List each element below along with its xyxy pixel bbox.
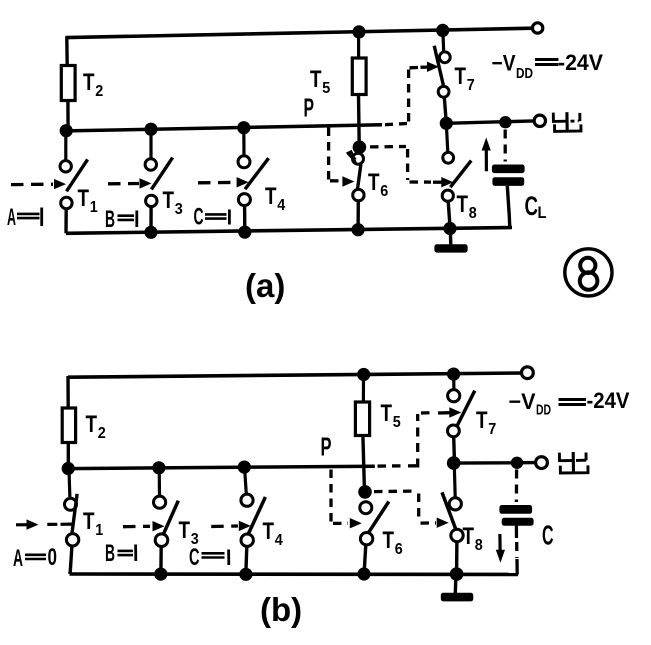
wire: dashed run to T7 gate (figure b) [421,411,433,415]
node: P bus at T4 (figure b) [238,461,251,474]
wire: dashed output to C top plate (figure b) [515,470,518,503]
label -VDD = -24V (figure b) [509,388,630,419]
wire: dashed run to T6 gate (figure b) [333,522,348,525]
svg-text:T: T [383,527,395,554]
node: top bus at T5 (figure a) [352,25,365,38]
gate dashed run from T5/T6 node (figure a) [370,145,406,149]
node: ground bus at T3 (figure a) [144,226,157,239]
node: ground bus at T4 (figure a) [238,226,251,239]
svg-text:T: T [78,185,90,212]
caption (a) [245,267,285,304]
gate arrow into T1 (figure a) [54,179,66,189]
svg-text:C: C [194,204,204,231]
label input B=1 (figure a) [105,206,137,233]
svg-text:DD: DD [516,65,533,82]
svg-text:T: T [463,523,475,550]
svg-text:T: T [476,407,488,434]
switch T7 bottom contact (figure a) [438,86,449,97]
node: P bus at T3 (figure a) [144,123,157,136]
label T2 (figure a) [83,69,103,100]
wire: figure (b) bottom ground bus [70,572,519,576]
svg-text:T: T [455,63,467,90]
svg-text:T: T [163,187,175,214]
terminal: -VDD supply (figure b) [522,367,534,379]
label input C=1 (figure b) [189,544,229,571]
wire: P bus dashed extension (figure b) [378,464,407,468]
waveform symbol at output (figure a) [553,112,581,131]
wire: T6 bottom to ground bus (figure b) [364,545,366,572]
svg-text:1: 1 [95,522,103,539]
gate arrow into T8 (figure b) [437,518,449,528]
wire: stub bus to T3 top contact (figure a) [149,131,152,159]
node: output at capacitor (figure b) [511,457,523,469]
label T2 (figure b) [86,411,106,442]
gate drive A line with arrow (figure b) [16,519,72,529]
wire: T1 bottom to ground bus (figure a) [64,209,68,234]
wire: T5 bottom through P bus to T6 node (figure a) [357,95,361,146]
wire: T7 to output node (figure b) [452,437,456,460]
wire: figure (a) left vertical from top bus to T2 [65,36,69,67]
gate drive A dashed line (figure a) [11,183,53,187]
gate drive B dashed line (figure a) [108,182,139,186]
wire: figure (a) bottom ground bus [66,228,512,234]
switch T7 blade closed (figure a) [434,46,444,87]
switch T8 bottom contact (figure a) [442,190,453,201]
label T4 (figure b) [263,518,283,549]
svg-text:3: 3 [175,201,183,218]
gate arrow into T8 (figure a) [433,177,453,187]
switch T7 top contact (figure b) [448,390,460,402]
label T3 (figure a) [163,187,183,218]
node: P bus at T1 (figure b) [62,462,75,475]
svg-text:-24V: -24V [587,388,630,413]
svg-text:DD: DD [536,402,551,419]
ground symbol at T8 (figure b) [441,575,474,601]
switch T3 bottom contact (figure a) [146,195,157,206]
wire: dashed gate riser P to T7 (figure a) [407,69,410,122]
gate drive C dashed line (figure b) [211,524,238,528]
wire: dashed gate drop P to T6 (figure a) [327,128,330,180]
wire: dashed gate riser P to T7 (figure b) [408,414,418,468]
wire: output line to terminal (figure a) [446,121,534,123]
svg-text:0: 0 [48,544,58,571]
wire: dashed gate riser to T8 (figure a) [406,149,409,180]
svg-text:T: T [179,517,191,544]
svg-text:6: 6 [380,183,388,200]
svg-text:5: 5 [393,414,401,431]
label -VDD = -24V (figure a) [492,50,604,82]
svg-text:T: T [263,518,275,545]
label CL (figure a) [525,191,547,222]
wire: T6 bottom to ground bus (figure a) [356,201,360,230]
wire: T4 bottom to ground bus (figure a) [243,206,247,233]
svg-text:C: C [189,544,200,571]
resistor T5 (load device, figure a) [352,58,366,95]
switch T4 bottom contact (figure b) [241,534,253,546]
switch T3 blade open (figure b) [162,501,179,538]
svg-text:5: 5 [322,80,330,97]
svg-text:8: 8 [469,205,477,222]
gate arrow into T3 (figure b) [153,521,165,531]
svg-text:(a): (a) [245,267,285,304]
label T1 (figure a) [78,185,98,216]
node: top bus at T7 (figure a) [436,24,449,37]
node: ground bus at T3 (figure b) [154,568,167,581]
resistor T2 (load device, figure a) [61,66,75,101]
node: T5/T6 junction (figure b) [358,485,372,499]
svg-text:−V: −V [509,389,536,414]
label C (figure b) [542,520,554,551]
gate arrow into T6 (figure a) [342,176,354,186]
gate arrow into T4 (figure a) [237,177,249,187]
wire: figure (b) P-node bus [68,466,375,468]
wire: figure (b) left vertical from top bus to T2 [66,376,70,409]
node: ground bus at T6 (figure b) [357,567,370,580]
wire: stub bus to T1 top contact (figure a) [64,132,67,161]
gate arrow into T7 (figure b) [438,407,461,417]
svg-text:4: 4 [275,532,283,549]
switch T8 bottom contact (figure b) [451,529,463,541]
wire: dashed gate drop P to T6 (figure b) [329,470,332,522]
wire: top bus to T5 resistor (figure b) [362,376,365,403]
terminal: -VDD supply (figure a) [532,23,542,33]
switch T1 blade closed (figure b) [72,494,77,534]
wire: T1 bottom to ground bus (figure b) [70,546,72,574]
svg-text:A: A [13,545,23,572]
svg-text:T: T [265,183,277,210]
svg-text:B: B [105,540,115,567]
wire: figure (a) P-node bus [66,125,382,131]
wire: stub bus to T1 top contact (figure b) [67,470,71,498]
svg-text:B: B [105,206,115,233]
label input A=1 (figure a) [7,204,42,231]
node: ground bus at T4 (figure b) [239,568,252,581]
switch T1 top contact (figure b) [65,498,77,510]
switch T7 top contact (figure a) [439,52,450,63]
wire: dashed run to T8 gate (figure a) [410,180,432,183]
svg-text:T: T [368,169,380,196]
wire: stub bus to T3 top contact (figure b) [158,469,162,496]
label T4 (figure a) [265,183,285,214]
resistor T5 (load device, figure b) [355,402,369,436]
svg-text:A: A [7,204,16,231]
svg-text:−V: −V [492,51,516,76]
svg-text:T: T [83,69,95,96]
switch T1 bottom contact (figure a) [61,197,72,208]
ground symbol at T8 (figure a) [434,229,467,253]
wire: dashed run to T6 gate (figure a) [330,179,343,182]
wire: T8 bottom to ground bus (figure a) [448,201,450,224]
svg-text:7: 7 [467,77,475,94]
wire: T3 bottom to ground bus (figure a) [149,207,153,233]
label node P (figure b) [321,432,332,462]
capacitor C top plate (figure b) [499,505,532,514]
switch T6 bottom contact (figure b) [360,533,372,545]
current arrow up (figure a) [482,138,491,172]
label T7 (figure b) [476,407,496,438]
switch T3 top contact (figure b) [154,496,166,508]
terminal: output (figure b) [536,457,548,469]
switch T8 top contact (figure a) [443,152,454,163]
node: top bus at T7 (figure b) [447,368,460,381]
switch T8 blade open (figure a) [450,161,471,188]
svg-text:L: L [538,203,547,222]
wire: top bus to T7 (figure b) [452,376,455,390]
switch T8 top contact (figure b) [449,498,461,510]
switch T6 top contact (figure b) [360,502,372,514]
wire: stub bus to T4 top contact (figure a) [242,129,245,156]
node: output node (figure b) [447,456,461,470]
svg-text:1: 1 [90,199,98,216]
figure number circled 8 [565,249,612,296]
switch T7 blade open (figure b) [456,391,475,429]
wire: figure (a) top supply bus [66,28,533,37]
switch T6 top contact (figure a) [353,153,364,164]
switch T1 bottom contact (figure b) [66,534,78,546]
switch T6 blade open (figure b) [369,502,389,533]
svg-text:6: 6 [395,541,403,558]
node: output node (figure a) [440,117,453,130]
label T6 (figure b) [383,527,403,558]
gate drive C dashed line (figure a) [198,181,236,185]
node: ground bus at T6 (figure a) [352,223,365,236]
label node P (figure a) [304,93,315,123]
node: P bus at T1 (figure a) [60,124,73,137]
gate arrow into T3 (figure a) [140,178,152,188]
label input A=0 (figure b) [13,544,57,572]
label input C=1 (figure a) [194,204,230,231]
svg-text:T: T [381,400,393,427]
switch T4 top contact (figure a) [238,156,250,168]
switch T4 blade open (figure a) [245,158,269,189]
node: top bus at T5 (figure b) [357,368,370,381]
wire: dashed run to T7 gate (figure a) [410,66,421,70]
svg-text:2: 2 [95,83,103,100]
wire: T7 to output node (figure a) [444,97,446,119]
label T8 (figure b) [463,523,483,554]
switch T6 blade arrow mark (figure a) [346,150,358,165]
wire: output node to T8 top contact (figure a) [446,125,447,152]
wire: T8 bottom to ground bus (figure b) [455,542,459,572]
terminal: output (figure a) [534,115,545,126]
switch T8 blade closed (figure b) [442,492,458,536]
svg-text:7: 7 [488,421,496,438]
switch T4 top contact (figure b) [241,494,253,506]
svg-text:T: T [83,508,95,535]
label T1 (figure b) [83,508,103,539]
label input B=1 (figure b) [105,540,136,567]
caption (b) [260,591,302,628]
svg-text:T: T [310,66,322,93]
wire: output node to T8 top contact (figure b) [453,465,457,498]
wire: figure (b) top supply bus [68,373,522,377]
node: T5/T6 junction (figure a) [353,140,367,154]
svg-text:C: C [525,191,539,221]
svg-text:8: 8 [475,537,483,554]
wire: CL bottom plate to ground bus (figure a) [507,186,510,228]
current arrow down (figure b) [496,534,505,563]
svg-text:T: T [457,191,469,218]
switch T3 top contact (figure a) [145,159,156,170]
wire: T3 bottom to ground bus (figure b) [159,547,163,572]
wire: T5 bottom through P bus to T6 node (figure b) [363,436,365,489]
label T5 (figure a) [310,66,330,97]
svg-text:-24V: -24V [558,50,603,75]
wire: stub bus to T4 top contact (figure b) [245,469,247,495]
wire: dashed output to CL top plate (figure a) [504,130,507,162]
svg-text:(b): (b) [260,591,302,628]
switch T4 bottom contact (figure a) [238,194,250,206]
label T8 (figure a) [457,191,477,222]
gate arrow into T6 (figure b) [350,518,362,528]
gate arrow into T7 (figure a) [421,62,440,72]
wire: top bus to T5 resistor (figure a) [357,33,360,59]
switch T3 bottom contact (figure b) [155,534,168,547]
node: ground bus at T8 (figure b) [450,567,464,581]
wire: output line to terminal (figure b) [454,461,536,465]
label T7 (figure a) [455,63,475,94]
switch T4 blade open (figure b) [247,497,266,537]
svg-text:P: P [321,432,332,462]
switch T7 bottom contact (figure b) [448,425,460,437]
node: P bus at T4 (figure a) [237,121,250,134]
wire: dashed gate riser to T8 (figure b) [417,494,420,522]
wire: T2 bottom to P bus (figure a) [66,100,70,131]
switch T1 blade open (figure a) [67,159,88,191]
switch T6 blade closed (figure a) [357,164,361,190]
label T5 (figure b) [381,400,401,431]
svg-text:P: P [304,93,315,123]
switch T1 top contact (figure a) [60,161,71,172]
wire: P bus dashed extension (figure a) [385,123,409,124]
wire: T4 bottom to ground bus (figure b) [244,547,248,573]
gate drive B dashed line (figure b) [123,525,150,529]
gate dashed run from T5/T6 node (figure b) [374,489,414,493]
capacitor CL top plate (figure a) [492,165,525,174]
node: P bus at T3 (figure b) [152,461,165,474]
gate arrow into T4 (figure b) [239,521,251,531]
label T6 (figure a) [368,169,388,200]
wire: T2 bottom to P bus (figure b) [67,443,70,470]
svg-text:C: C [542,520,554,551]
svg-text:T: T [86,411,98,438]
svg-text:2: 2 [98,425,106,442]
label T3 (figure b) [179,517,199,548]
wire: dashed run to T8 gate (figure b) [421,521,437,524]
capacitor C bottom plate (figure b) [502,518,534,526]
capacitor CL bottom plate (figure a) [492,177,524,186]
switch T3 blade open (figure a) [151,158,172,190]
switch T6 bottom contact (figure a) [353,189,364,200]
node: output at load capacitor (figure a) [499,116,511,128]
node: ground bus at T8 (figure a) [443,222,456,235]
svg-text:4: 4 [277,197,285,214]
resistor T2 (load device, figure b) [62,408,75,443]
waveform symbol at output (figure b) [559,452,588,474]
wire: C bottom plate dashed to ground bus (figure b) [515,526,519,575]
wire: top bus to T7 (figure a) [441,32,445,53]
